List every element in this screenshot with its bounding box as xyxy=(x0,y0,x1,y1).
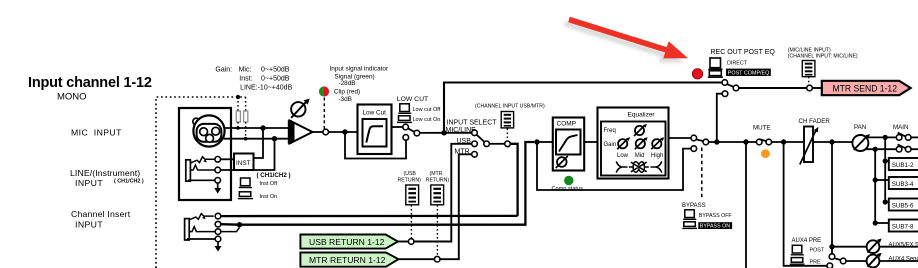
jack tip spring xyxy=(190,157,215,163)
dip switch channel input xyxy=(501,112,513,128)
svg-text:(CHANNEL INPUT: MIC/LINE): (CHANNEL INPUT: MIC/LINE) xyxy=(788,54,858,60)
resistor phantom R1 xyxy=(236,111,240,122)
wire pan R out xyxy=(866,148,897,150)
op-amp input head amp xyxy=(288,120,292,143)
svg-text:Low: Low xyxy=(617,153,629,159)
wire feed SUB7-8 xyxy=(875,222,889,224)
wire aux4 out xyxy=(879,260,918,262)
svg-text:AUX4 Send: AUX4 Send xyxy=(889,257,918,263)
svg-text:COMP: COMP xyxy=(557,120,577,127)
switch icon inst on xyxy=(239,192,251,197)
wire dashed indicator tap xyxy=(323,98,325,130)
LED signal/clip indicator xyxy=(319,86,324,96)
wire dotted mic/line dip tap xyxy=(808,77,810,85)
filter block LOW CUT xyxy=(358,105,392,155)
svg-text:INPUT: INPUT xyxy=(75,178,103,188)
box INST xyxy=(234,154,254,171)
switch aux4 post contact xyxy=(829,254,835,260)
svg-text:MONO: MONO xyxy=(57,92,87,103)
wire feed SUB5-6 xyxy=(885,201,889,203)
svg-text:Inst On: Inst On xyxy=(260,194,278,200)
svg-text:RETURN): RETURN) xyxy=(426,177,450,183)
switch select pole xyxy=(484,141,490,147)
signal arrow MTR SEND 1-12 xyxy=(822,81,911,95)
switch low cut contact A xyxy=(403,124,409,130)
switch bypass contact B xyxy=(691,146,697,152)
svg-text:(USB: (USB xyxy=(404,171,417,177)
wire mtr arrow to tap xyxy=(399,258,435,260)
wire bypass pole to node xyxy=(709,141,720,143)
svg-text:BYPASS: BYPASS xyxy=(682,203,706,209)
wire insert return line xyxy=(221,142,535,225)
jack sleeve contact xyxy=(188,179,215,181)
wire low cut bypass path xyxy=(345,132,406,159)
svg-text:Input signal indicator: Input signal indicator xyxy=(330,66,389,73)
svg-text:(CHANNEL INPUT USB/MTR): (CHANNEL INPUT USB/MTR) xyxy=(475,104,545,110)
node L sub tee xyxy=(883,135,888,140)
potentiometer PAN xyxy=(852,135,868,151)
connector XLR latch xyxy=(193,118,200,125)
switch select MTR contact xyxy=(472,152,478,158)
svg-text:POST: POST xyxy=(810,248,825,254)
node cold/ring junction xyxy=(272,136,277,141)
ground mic jack xyxy=(217,183,219,188)
switch mute contact A xyxy=(756,139,762,145)
wire amp out xyxy=(313,131,323,133)
wire pan L out xyxy=(866,136,896,138)
wire REC OUT direct feed xyxy=(444,83,722,133)
wire USB return riser xyxy=(414,144,472,242)
potentiometer GAIN xyxy=(291,102,305,116)
eq curve peak glyph xyxy=(629,162,649,172)
LED rec out red xyxy=(692,69,702,79)
svg-text:AUX4 PRE: AUX4 PRE xyxy=(792,238,822,244)
wire mute to fader xyxy=(772,141,804,143)
wire main after bypass xyxy=(717,141,757,143)
svg-text:Inst:: Inst: xyxy=(239,76,252,83)
node hot/INST junction xyxy=(260,125,265,130)
switch icon aux4 post xyxy=(792,245,802,253)
svg-text:High: High xyxy=(651,153,663,159)
potentiometer AUX4 xyxy=(867,255,880,268)
switch rec pole xyxy=(733,85,739,91)
bus box SUB1-2 xyxy=(889,158,918,170)
switch select blade xyxy=(477,135,485,142)
node phantom junction xyxy=(236,95,240,99)
svg-text:DIRECT: DIRECT xyxy=(727,60,748,66)
signal arrow USB RETURN 1-12 xyxy=(300,235,398,249)
potentiometer eq gain mid xyxy=(636,139,645,148)
svg-text:BYPASS OFF: BYPASS OFF xyxy=(699,213,733,219)
connector XLR outer xyxy=(193,115,224,146)
wire fader to pan xyxy=(813,141,852,143)
potentiometer comp threshold xyxy=(557,157,567,167)
svg-text:-28dB: -28dB xyxy=(339,80,356,87)
potentiometer AUX5/FX xyxy=(867,240,880,253)
jack ring spring xyxy=(190,165,215,170)
svg-text:SUB7-8: SUB7-8 xyxy=(892,224,914,231)
insert jack ring contact xyxy=(215,229,221,235)
wire dashed bypass legend xyxy=(701,148,703,199)
channel boundary dotted border (phantom feed) xyxy=(156,97,246,268)
wire aux4 feed xyxy=(846,260,867,262)
wire phantom dotted drop 1 xyxy=(237,97,239,111)
insert jack tip contact (send) xyxy=(215,213,221,219)
annotation red arrow xyxy=(568,17,688,59)
bus box SUB3-4 xyxy=(889,177,918,189)
equalizer block xyxy=(598,108,669,179)
wire dotted dip tap xyxy=(506,129,508,141)
wire pre-fader drop (aux4 pre) xyxy=(784,142,827,266)
node indicator tap circle xyxy=(323,129,329,135)
switch bypass blade xyxy=(696,139,703,141)
connector insert jack sleeve bar xyxy=(185,219,190,240)
switch rec direct contact xyxy=(722,80,728,86)
connector TRS jack sleeve bar xyxy=(186,160,191,181)
wire phantom dotted to hot line xyxy=(237,122,239,127)
svg-text:(MIC/LINE INPUT): (MIC/LINE INPUT) xyxy=(788,47,831,53)
bus box SUB5-6 xyxy=(889,199,918,211)
node REC direct tee xyxy=(441,130,446,135)
insert jack tip spring xyxy=(189,214,214,220)
switch mute contact B xyxy=(766,139,772,145)
eq curve low shelf glyph xyxy=(616,161,627,172)
svg-text:INST: INST xyxy=(236,160,251,167)
svg-text:RETURN): RETURN) xyxy=(398,177,422,183)
eq curve high shelf glyph xyxy=(651,161,662,172)
wire jack tip to INST xyxy=(221,158,235,160)
svg-text:Gain: Gain xyxy=(604,142,617,148)
node usb return dip tap xyxy=(408,239,414,245)
svg-text:AUX5/FX Se: AUX5/FX Se xyxy=(889,242,918,248)
wire feed SUB3-4 xyxy=(875,179,889,181)
LED mute orange xyxy=(761,149,770,158)
connector XLR pin 1 xyxy=(200,128,208,136)
switch select USB contact xyxy=(472,141,478,147)
svg-text:USB RETURN 1-12: USB RETURN 1-12 xyxy=(309,237,385,247)
svg-text:LINE/(Instrument): LINE/(Instrument) xyxy=(70,168,140,178)
svg-text:POST COMP/EQ: POST COMP/EQ xyxy=(728,71,770,77)
svg-text:CH FADER: CH FADER xyxy=(799,118,831,125)
wire XLR cold to amp xyxy=(224,138,290,140)
svg-text:MUTE: MUTE xyxy=(753,125,771,132)
wire low cut out xyxy=(392,126,403,128)
switch bypass pole xyxy=(703,139,709,145)
wire usb arrow to tap xyxy=(398,241,409,243)
potentiometer eq freq mid xyxy=(635,126,644,135)
switch bypass contact A xyxy=(691,135,697,141)
connector box MIC/LINE combo xyxy=(179,108,231,200)
potentiometer eq gain low xyxy=(618,139,627,148)
bus box SUB7-8 xyxy=(889,220,918,232)
svg-text:-3dB: -3dB xyxy=(338,96,352,103)
wire pole to select xyxy=(420,132,444,134)
svg-text:MTR RETURN 1-12: MTR RETURN 1-12 xyxy=(309,255,386,265)
node low cut split xyxy=(342,129,347,134)
svg-text:MAIN: MAIN xyxy=(893,124,908,131)
switch low cut pole xyxy=(414,130,420,136)
svg-text:Clip (red): Clip (red) xyxy=(334,89,360,96)
wire jack ring bypass xyxy=(221,139,275,170)
connector XLR pin 3 xyxy=(206,134,214,142)
insert jack ring spring xyxy=(189,227,215,232)
wire R sub drop xyxy=(874,149,876,223)
wire XLR hot to amp xyxy=(224,127,290,129)
connector XLR inner face xyxy=(197,124,222,142)
wire eq bypass path xyxy=(537,142,691,190)
svg-text:SUB3-4: SUB3-4 xyxy=(892,181,914,188)
wire pole to insert send xyxy=(489,143,504,145)
svg-text:Gain:: Gain: xyxy=(215,67,232,74)
svg-text:(MTR: (MTR xyxy=(430,171,443,177)
svg-text:INPUT SELECT: INPUT SELECT xyxy=(447,120,498,127)
wire post-fader drop (aux post) xyxy=(831,142,833,254)
svg-text:LINE:-10~+40dB: LINE:-10~+40dB xyxy=(240,85,292,92)
switch rec blade xyxy=(727,84,734,87)
switch low cut blade xyxy=(408,128,414,131)
svg-text:MTR SEND 1-12: MTR SEND 1-12 xyxy=(833,83,898,93)
switch icon inst off xyxy=(241,178,251,186)
wire MTR return riser xyxy=(440,154,472,259)
svg-text:0~+50dB: 0~+50dB xyxy=(261,67,290,74)
svg-text:Input channel 1-12: Input channel 1-12 xyxy=(28,75,152,91)
node post eq tee xyxy=(714,139,719,144)
wire mtr send line xyxy=(739,87,807,89)
resistor phantom R2 xyxy=(244,111,248,122)
svg-text:Channel Insert: Channel Insert xyxy=(71,209,131,219)
node channel input dip tap xyxy=(505,141,511,147)
svg-text:0~+50dB: 0~+50dB xyxy=(261,76,290,83)
svg-text:Equalizer: Equalizer xyxy=(628,111,656,118)
switch aux4 blade xyxy=(834,258,840,260)
svg-text:Low Cut: Low Cut xyxy=(363,110,387,117)
wire post eq riser to rec switch xyxy=(717,94,722,142)
wire dotted mtr dip tap xyxy=(436,205,438,256)
svg-text:Inst Off: Inst Off xyxy=(260,181,278,187)
wire comp to eq xyxy=(584,141,597,143)
svg-text:Mic:: Mic: xyxy=(239,67,252,74)
connector XLR pin 2 xyxy=(212,127,220,135)
wire aux5 feed xyxy=(832,246,867,248)
compressor block COMP xyxy=(553,118,584,171)
svg-text:PAN: PAN xyxy=(854,124,866,131)
switch rec post contact xyxy=(722,91,728,97)
switch low cut contact B xyxy=(403,135,409,141)
node comp input junction xyxy=(534,139,539,144)
switch mute blade xyxy=(759,139,767,141)
node mic/line input dip tap xyxy=(807,85,813,91)
svg-text:SUB1-2: SUB1-2 xyxy=(892,162,914,169)
node insert return junction xyxy=(237,222,242,227)
node mtr return dip tap xyxy=(434,256,440,262)
node pre-fader tee xyxy=(781,139,786,144)
switch main R xyxy=(896,146,902,152)
dip switch mtr return xyxy=(431,185,444,205)
potentiometer eq gain high xyxy=(652,139,661,148)
node pre-mute tee xyxy=(743,139,748,144)
svg-text:Freq: Freq xyxy=(604,128,616,134)
wire to low cut xyxy=(329,131,359,133)
wire INST out up to hot xyxy=(254,128,264,158)
svg-text:BYPASS ON: BYPASS ON xyxy=(700,224,730,230)
svg-text:Low cut On: Low cut On xyxy=(413,117,441,123)
wire pre-mute drop xyxy=(745,142,747,268)
switch main L xyxy=(896,135,902,141)
wire to comp xyxy=(537,141,553,143)
switch aux4 pre contact xyxy=(827,263,833,268)
signal arrow MTR RETURN 1-12 xyxy=(300,253,398,267)
wire aux5 out xyxy=(879,246,918,248)
svg-text:SUB5-6: SUB5-6 xyxy=(892,203,914,210)
wire to mic/line contact xyxy=(444,132,472,134)
svg-text:Mid: Mid xyxy=(635,153,645,159)
wire dotted usb dip tap xyxy=(410,205,412,239)
svg-text:LOW CUT: LOW CUT xyxy=(397,96,428,103)
node R sub tee xyxy=(873,147,878,152)
switch select MIC/LINE contact xyxy=(472,130,478,136)
insert jack return contact xyxy=(215,221,221,227)
annotation arrow shadow xyxy=(564,21,684,63)
svg-text:MIC INPUT: MIC INPUT xyxy=(71,128,122,138)
svg-text:Low cut Off: Low cut Off xyxy=(413,107,441,113)
svg-text:REC OUT POST EQ: REC OUT POST EQ xyxy=(711,49,776,56)
node aux5 post tee xyxy=(829,244,834,249)
switch icon aux4 pre xyxy=(791,258,803,263)
svg-text:PRE: PRE xyxy=(810,259,821,265)
svg-text:( CH1/CH2 ): ( CH1/CH2 ) xyxy=(257,172,291,179)
ground insert jack xyxy=(217,242,219,247)
svg-text:( CH1/CH2 ): ( CH1/CH2 ) xyxy=(114,179,144,185)
jack tip contact xyxy=(215,157,221,163)
wire phantom dotted to cold line xyxy=(245,122,247,138)
wire L sub drop xyxy=(884,137,886,202)
dip switch mic/line input xyxy=(802,61,815,77)
wire feed SUB1-2 xyxy=(885,160,889,162)
dip switch usb return xyxy=(406,185,419,205)
insert jack sleeve contact xyxy=(187,238,215,240)
svg-text:INPUT: INPUT xyxy=(75,220,103,230)
switch aux4 pole xyxy=(840,258,846,264)
wire phantom dotted drop 2 xyxy=(245,97,247,111)
wire insert send line xyxy=(221,215,518,218)
wire eq out xyxy=(669,137,692,139)
LED comp status xyxy=(564,176,573,185)
wire ring blade to return xyxy=(221,227,240,231)
node post-fader tee xyxy=(829,139,834,144)
fader CH FADER xyxy=(804,127,813,163)
jack ring contact xyxy=(215,167,221,173)
